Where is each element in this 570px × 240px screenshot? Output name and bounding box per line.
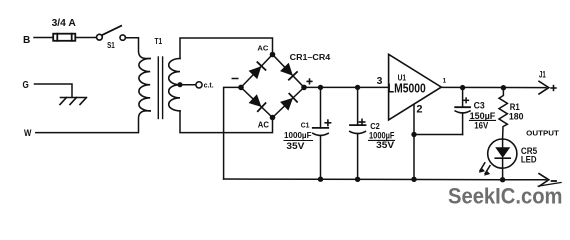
svg-text:T1: T1: [155, 37, 163, 46]
diode CR2: [281, 64, 292, 75]
positive rail wire: [306, 86, 389, 88]
terminal c.t.: [196, 82, 202, 88]
node AC bottom: [270, 115, 276, 121]
regulator U1 LM5000: [389, 54, 442, 120]
junction C3 top: [460, 85, 465, 90]
svg-text:C3: C3: [474, 101, 485, 111]
connector J1 plus arrow: [539, 81, 549, 94]
junction C2 top: [355, 85, 360, 90]
wire C3 to pin 2: [414, 134, 463, 136]
svg-text:S1: S1: [107, 40, 115, 50]
bridge rectifier CR1-CR4 frame: [241, 55, 304, 118]
wire S1 to T1 primary top: [126, 38, 151, 59]
LED CR5: [488, 139, 517, 168]
node AC top: [270, 52, 276, 58]
scan artifact stroke: [538, 183, 561, 187]
capacitor C2: [357, 87, 359, 125]
svg-text:W: W: [24, 128, 32, 138]
diode CR3: [250, 95, 261, 106]
wire G to ground: [35, 84, 73, 97]
label C2 plus: [359, 121, 364, 123]
svg-text:1000µF: 1000µF: [284, 130, 312, 140]
svg-text:AC: AC: [258, 120, 269, 130]
ground: [61, 97, 86, 99]
svg-text:1: 1: [443, 77, 447, 84]
wire bridge minus to negative rail: [224, 87, 239, 179]
svg-text:c.t.: c.t.: [204, 83, 214, 90]
svg-text:AC: AC: [257, 44, 269, 53]
negative rail wire: [224, 178, 546, 181]
label plus: [307, 80, 312, 82]
junction LED rail: [500, 177, 505, 182]
svg-text:B: B: [23, 34, 31, 46]
svg-text:LM5000: LM5000: [388, 81, 426, 95]
LED CR5 emission arrows: [480, 163, 485, 171]
svg-text:OUTPUT: OUTPUT: [526, 129, 559, 138]
svg-text:3: 3: [377, 76, 383, 87]
svg-text:1000µF: 1000µF: [369, 130, 395, 140]
wire B to fuse: [34, 37, 53, 39]
wire U1 output: [441, 86, 546, 88]
diode CR1: [250, 67, 261, 78]
node plus: [301, 85, 307, 91]
svg-text:180: 180: [509, 111, 524, 122]
transformer T1 secondary winding: [169, 59, 180, 111]
label C1 plus: [325, 122, 330, 124]
svg-text:SeekIC.com: SeekIC.com: [448, 183, 563, 208]
wire T1 secondary top to bridge AC top: [180, 38, 273, 59]
junction pin2 rail: [411, 177, 416, 182]
svg-text:C1: C1: [301, 121, 310, 130]
junction C1 bottom: [318, 177, 323, 182]
wire U1 pin 2 to negative rail: [413, 104, 415, 179]
capacitor C3: [462, 88, 464, 108]
transformer T1 primary winding: [139, 59, 150, 111]
junction R1 top: [501, 85, 506, 90]
label minus: [232, 78, 238, 80]
svg-text:CR1–CR4: CR1–CR4: [290, 52, 331, 62]
junction secondary center tap: [177, 82, 182, 87]
junction C1 top: [318, 85, 323, 90]
svg-text:LED: LED: [521, 155, 537, 165]
capacitor C1: [320, 87, 322, 128]
junction pin2 / C3 return: [411, 132, 416, 137]
svg-text:3/4 A: 3/4 A: [52, 18, 77, 29]
resistor R1: [499, 88, 507, 139]
wire center tap: [182, 84, 196, 86]
transformer T1 core: [157, 57, 159, 119]
wire T1 secondary bottom to bridge AC bottom: [180, 111, 273, 133]
wire T1 primary bottom to W: [36, 111, 150, 133]
svg-text:J1: J1: [539, 70, 546, 80]
fuse 3/4 A: [53, 34, 75, 41]
svg-text:2: 2: [416, 103, 422, 115]
junction C2 bottom: [355, 177, 360, 182]
svg-text:16V: 16V: [474, 120, 488, 130]
svg-text:G: G: [23, 80, 29, 91]
wire fuse to S1: [75, 37, 96, 39]
switch S1: [97, 34, 103, 40]
diode CR4: [281, 99, 292, 110]
label J1 minus: [552, 180, 556, 182]
label J1 plus: [551, 87, 556, 89]
node minus: [238, 85, 244, 91]
svg-text:35V: 35V: [376, 140, 395, 151]
label C3 plus: [464, 99, 469, 101]
connector J1 minus arrow: [539, 174, 549, 187]
svg-text:35V: 35V: [286, 141, 305, 151]
